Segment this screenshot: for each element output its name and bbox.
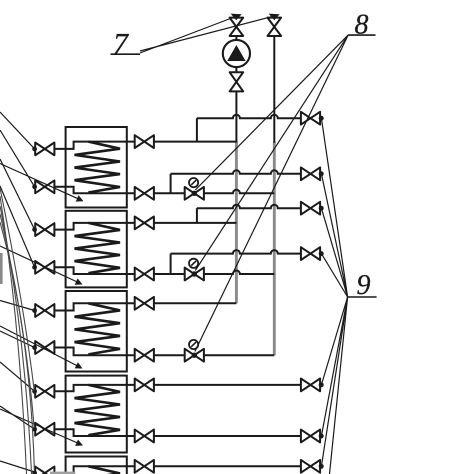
valve HX1 secondary bottom (135, 187, 154, 200)
shut-off valve 9 (HX4 bottom) (301, 430, 320, 443)
heat exchanger HX1 shell (66, 127, 127, 208)
valve below pump (230, 72, 244, 91)
pipe: HX2 primary return (left bottom) (54, 267, 126, 274)
valve HX5 secondary top (135, 460, 154, 473)
leader 9 to shut-off valve (321, 297, 347, 466)
valve HX4 primary return (35, 423, 54, 436)
valve HX2 secondary bottom (135, 268, 154, 281)
leader to primary valve (0, 130, 35, 187)
valve HX1 secondary top (135, 135, 154, 148)
leader to primary valve (0, 362, 35, 391)
pipe: HX1 primary return (left bottom) (54, 187, 126, 194)
valve HX2 secondary top (135, 217, 154, 230)
leader to heat-exchanger coil (0, 409, 81, 445)
valve HX1 primary return (35, 180, 54, 193)
valve 7a (pump line top) (230, 18, 244, 36)
leader 9 to off-canvas valve below (330, 297, 348, 474)
shut-off valve 9 (HX1 bottom branch) (301, 167, 320, 180)
leader to heat-exchanger coil (0, 326, 81, 368)
leader 9 to shut-off valve (321, 297, 347, 385)
leader to primary valve (0, 331, 35, 348)
leader 8 to control valve (195, 35, 348, 351)
leader 9 to shut-off valve (321, 118, 347, 297)
shut-off valve 9 (HX2 bottom branch) (301, 247, 320, 260)
control valve 8 (HX3) (185, 349, 204, 362)
leader to primary valve (0, 186, 35, 267)
pipe: HX2 primary supply (left top) (54, 223, 126, 230)
valve HX4 secondary bottom (135, 430, 154, 443)
leader to heat-exchanger coil (0, 164, 82, 201)
valve HX3 primary return (35, 341, 54, 354)
pipe: HX1 secondary top to supply main (127, 141, 237, 143)
pipe: pump riser (black) (235, 90, 237, 143)
valve HX4 primary supply (35, 385, 54, 398)
shut-off valve 9 (HX2 top branch) (301, 202, 320, 215)
pipe: bypass riser (black) (273, 36, 275, 143)
pipe: HX3 primary return (left bottom) (54, 348, 126, 356)
heat exchanger HX5 coil (75, 466, 121, 474)
control valve 8 (HX2) (185, 268, 204, 281)
pipe: HX1 bottom branch riser (170, 174, 172, 194)
valve HX1 primary supply (35, 143, 54, 156)
pipe: HX5 secondary top straight (127, 465, 301, 467)
heat exchanger HX3 shell (66, 291, 127, 372)
leader 8 to control valve (195, 35, 348, 190)
cropped mark at left edge (0, 253, 3, 284)
leader 9 to shut-off valve (321, 174, 347, 297)
pipe: HX4 secondary bottom straight (127, 435, 301, 437)
valve HX3 primary supply (35, 304, 54, 317)
leader to primary valve (0, 159, 35, 230)
leader 7 to bypass valve (140, 17, 271, 51)
heat exchanger HX2 coil (75, 223, 121, 273)
pipe: HX1 secondary bottom (127, 190, 274, 193)
valve HX3 secondary top (135, 297, 154, 310)
return main (gray riser) (273, 142, 276, 356)
pipe: HX4 secondary top straight (127, 384, 301, 386)
heat exchanger HX5 shell (66, 457, 127, 474)
heat exchanger HX3 coil (75, 303, 121, 354)
cropped gray pipe at bottom edge (50, 472, 75, 474)
pipe: HX5 primary supply (left top) (54, 466, 126, 473)
heat exchanger HX2 shell (66, 211, 127, 288)
pipe: HX3 secondary top to supply main corner (127, 302, 237, 304)
leader to primary valve (0, 301, 35, 311)
heat exchanger HX1 coil (75, 142, 121, 193)
pipe: HX2 secondary bottom (127, 271, 274, 274)
pipe: HX4 primary supply (left top) (54, 385, 126, 391)
pipe: HX2 top consumer branch (197, 205, 301, 208)
pipe: HX3 secondary bottom to return main corner (127, 354, 274, 356)
pipe: HX1 top consumer branch (197, 115, 301, 118)
leader to primary valve (0, 112, 35, 149)
leader bundle (to lower units) (0, 188, 34, 391)
pipe: HX2 bottom consumer branch (171, 250, 301, 254)
heat exchanger HX4 coil (75, 385, 121, 435)
shut-off valve 9 (HX1 top branch) (301, 112, 320, 125)
pipe: HX4 primary return (left bottom) (54, 429, 126, 436)
pipe: HX2 top branch riser (196, 208, 198, 223)
leader to primary valve (0, 461, 35, 472)
leader 8 to control valve (195, 35, 348, 270)
leader to heat-exchanger coil (0, 246, 81, 284)
valve HX3 secondary bottom (135, 349, 154, 362)
pipe: HX1 primary supply (left top) (54, 142, 126, 149)
valve HX2 primary return (35, 261, 54, 274)
leader 9 to shut-off valve (321, 254, 347, 297)
valve HX2 primary supply (35, 223, 54, 236)
leader 7 to pump-line valve (140, 18, 233, 54)
valve HX4 secondary top (135, 379, 154, 392)
valve HX5 primary supply (35, 467, 54, 474)
svg-text:7: 7 (113, 28, 130, 61)
shut-off valve 9 (HX5 top) (301, 460, 320, 473)
pipe: HX2 bottom branch riser (170, 254, 172, 274)
leader 9 to shut-off valve (321, 297, 347, 436)
control valve 8 (HX1) (185, 187, 204, 200)
pipe: HX1 top branch riser (196, 118, 198, 141)
shut-off valve 9 (HX4 top) (301, 379, 320, 392)
heat exchanger HX4 shell (66, 376, 127, 453)
pump U1 (223, 40, 250, 67)
pipe: HX1 bottom consumer branch (171, 170, 301, 173)
supply main (gray riser from pump line) (235, 142, 238, 304)
leader to primary valve (0, 406, 35, 429)
leader 9 to shut-off valve (321, 208, 347, 297)
pipe: HX3 primary supply (left top) (54, 303, 126, 310)
pipe: HX2 secondary top to supply main (127, 222, 237, 224)
valve 7b (bypass riser) (268, 18, 282, 36)
